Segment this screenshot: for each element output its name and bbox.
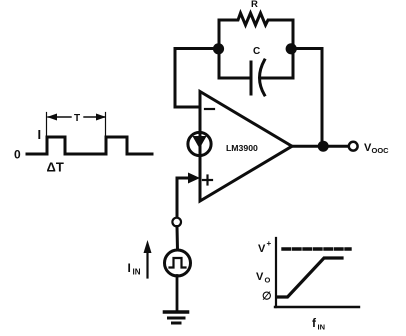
svg-text:I: I <box>128 261 131 275</box>
wire right vertical of feedback box <box>292 20 295 78</box>
current source mirror circle <box>188 132 211 155</box>
terminal open circle <box>172 218 181 227</box>
svg-text:f: f <box>312 316 317 330</box>
pulse generator source <box>165 250 191 276</box>
dimension arrow T right <box>84 116 105 118</box>
svg-text:LM3900: LM3900 <box>226 143 258 153</box>
svg-text:R: R <box>251 0 258 10</box>
graph transfer curve <box>278 258 343 297</box>
ground <box>165 310 188 314</box>
svg-text:V: V <box>258 243 266 255</box>
svg-text:IN: IN <box>133 268 141 277</box>
dimension arrow T left <box>48 116 71 118</box>
node junction dot right <box>286 43 297 54</box>
wire left vertical of feedback box <box>218 20 221 78</box>
waveform extension line left <box>46 113 48 137</box>
wire to non-inverting input with arrowhead <box>177 177 191 180</box>
svg-text:I: I <box>38 127 42 142</box>
op-amp U1 LM3900 triangle <box>200 92 292 202</box>
wire pulse source to ground <box>176 276 179 312</box>
wire terminal to pulse source <box>176 227 180 251</box>
wire output <box>292 145 349 148</box>
svg-text:O: O <box>265 276 271 285</box>
svg-text:0: 0 <box>14 148 21 162</box>
minus input sign <box>205 108 214 110</box>
input waveform trace <box>27 137 152 154</box>
wire feedback to inverting input <box>175 49 218 108</box>
svg-text:V: V <box>256 271 264 283</box>
wire feedback to output node <box>292 49 322 146</box>
svg-text:T: T <box>74 113 80 124</box>
svg-text:+: + <box>267 239 272 248</box>
capacitor C feedback <box>219 77 251 80</box>
svg-text:IN: IN <box>318 323 326 332</box>
node output junction dot <box>318 141 329 152</box>
graph y-axis <box>275 238 277 307</box>
svg-text:∅: ∅ <box>262 291 272 303</box>
current IIN arrow <box>146 249 148 278</box>
svg-text:ΔT: ΔT <box>47 160 64 175</box>
svg-text:C: C <box>253 46 260 57</box>
output terminal open circle <box>349 142 358 151</box>
resistor R1 feedback <box>219 13 293 25</box>
graph x-axis <box>275 306 359 308</box>
graph dashed V+ level <box>283 247 350 250</box>
node junction dot left <box>213 43 224 54</box>
svg-text:OOC: OOC <box>372 146 390 155</box>
waveform extension line right <box>105 113 107 137</box>
plus input sign <box>203 179 212 181</box>
